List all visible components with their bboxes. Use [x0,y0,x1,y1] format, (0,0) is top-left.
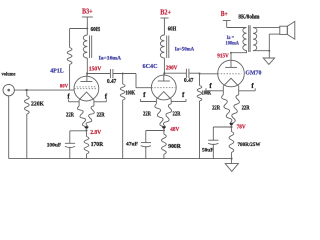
wire resistor to grid node [69,65,71,91]
svg-text:290V: 290V [166,66,178,72]
svg-text:915V: 915V [217,54,229,60]
svg-text:22R: 22R [173,112,182,118]
filament terminal f left (V2) [140,99,156,102]
svg-text:6C4C: 6C4C [143,63,158,70]
wire filament3 leg right [238,86,240,95]
ground (speaker) [263,58,274,64]
wire cathode3 to bypass [213,126,231,128]
power label B3+ [82,8,93,15]
tube V1 screen grid (dashed) [77,86,97,88]
ground rail [9,158,232,160]
wire grid2 entry [136,87,151,89]
B3+ terminal bar [82,16,93,18]
label 22R left (V3) [212,105,221,111]
tube V3 plate [225,66,237,68]
svg-text:0.47: 0.47 [107,79,116,85]
wire 47uF drop [145,131,147,143]
tube V1 filament [79,92,94,100]
wire input jack to ground [8,96,10,159]
label f left (V2) [143,91,146,99]
wire 50uF drop [212,127,214,140]
choke L1 core lines [90,36,92,59]
svg-text:50uF: 50uF [202,147,214,153]
resistor 170R [84,137,89,155]
capacitor 47uF bypass [141,143,151,147]
resistor 220K [24,96,29,114]
svg-text:150V: 150V [89,67,102,73]
label 50uF [202,147,214,153]
tube V2 plate [158,73,170,81]
svg-text:100K: 100K [202,91,212,97]
label 780R/25W [238,142,262,148]
wire filament leg right [93,100,95,106]
label 22R right (V2) [173,112,182,118]
wire 220K to ground rail [26,114,28,159]
label 8K/8ohm [238,14,259,20]
filament terminal f left (V1) [69,99,80,102]
B+ terminal bar [223,20,231,22]
wire choke to plate [86,58,88,76]
svg-text:GM70: GM70 [245,69,262,76]
ground (main) [225,164,238,172]
wire node to 170R [86,130,88,136]
wire node to 900R [163,130,165,134]
wire C1 to stage2 grid [113,73,136,75]
resistor 22R left (V3) [222,95,232,126]
wire input to grid [14,89,74,91]
resistor 900R [162,134,167,154]
label 900R [168,144,181,150]
wire B2+ down [163,18,165,35]
label 150V [89,67,102,73]
wire cathode node to bypass cap [70,130,87,132]
wire 220K top [26,90,28,96]
choke L1 60H winding [83,35,87,58]
label 22R left (V2) [143,112,152,118]
B2+ terminal bar [160,17,168,19]
wire secondary bottom [253,50,269,52]
svg-text:780R/25W: 780R/25W [238,142,262,148]
label f left (V1) [67,92,70,100]
label 100K (V2) [126,91,136,97]
wire plate3 lead [230,53,232,68]
tube V3 grid (dashed) [218,73,242,75]
node 915V plate junction [230,52,232,54]
label 78V [237,125,247,131]
wire filament3 leg left [222,86,224,95]
choke L2 60H winding [160,35,164,58]
label f left (V3) [209,82,212,90]
resistor 22R left (V1) [77,106,86,129]
label 4P1L [50,67,64,74]
label GM70 [245,69,262,76]
node 100K junction stage3 [199,73,201,75]
svg-text:22R: 22R [143,112,152,118]
transformer T1 primary [243,28,247,51]
svg-text:100K: 100K [126,91,136,97]
svg-text:4P1L: 4P1L [50,67,64,74]
label 47uF [126,142,139,148]
wire B+ to transformer [227,27,247,29]
power label B+ [221,11,228,18]
resistor 22R right (V1) [86,106,94,129]
tube V2 6C4C envelope [151,75,176,100]
label Ia=50mA [175,47,195,53]
node 48V cathode [163,129,165,131]
label 60H (L2) [168,26,177,32]
svg-text:0.47: 0.47 [184,78,194,84]
label Ia = 100mA [226,35,240,47]
tube V3 GM70 envelope [218,60,245,87]
wire filament leg left [78,100,80,106]
node 2.8V cathode [85,129,87,131]
filament terminal f right (V2) [171,99,186,102]
wire grid-feed drop [69,29,71,48]
filament terminal f right (V3) [239,88,256,91]
svg-text:2.8V: 2.8V [90,130,102,136]
label 100uF [47,143,62,149]
svg-text:Ia=50mA: Ia=50mA [175,47,195,53]
label 290V [166,66,178,72]
svg-text:B+: B+ [221,11,228,18]
svg-text:B3+: B3+ [82,8,93,15]
label 80V [60,84,68,90]
node rail junction [231,158,233,160]
svg-text:volume: volume [2,71,16,77]
capacitor 50uF bypass [208,140,218,144]
speaker [280,21,295,39]
resistor 780R/25W [229,132,234,153]
wire 100uF to ground rail [69,147,71,159]
tube V1 control grid (dashed) [74,88,96,90]
tube V1 plate [80,74,92,82]
resistor 100K grid leak (V3) [197,74,202,159]
node 100K junction [122,73,124,75]
wire 50uF to ground rail [212,144,214,159]
svg-text:8K/8ohm: 8K/8ohm [238,14,259,20]
wire secondary top to speaker [253,27,280,29]
node 78V cathode [230,126,232,128]
wire plate to coupling cap [87,73,110,75]
svg-text:22R: 22R [66,113,75,119]
label f right (V3) [251,82,254,90]
label f right (V1) [105,92,108,100]
node input 220K junction [25,89,27,91]
wire cathode2 to bypass [146,130,164,132]
resistor 22R right (V2) [163,104,171,130]
svg-text:100mA: 100mA [226,40,240,46]
label 170R [91,142,104,148]
wire choke L2 to plate [163,58,165,75]
wire step down to grid2 [135,74,137,88]
transformer T1 secondary [253,28,257,51]
svg-text:220K: 220K [31,102,44,108]
label 220K [31,102,44,108]
resistor 22R right (V3) [231,95,239,126]
svg-text:100uF: 100uF [47,143,62,149]
svg-text:22R: 22R [97,113,106,119]
label 60H [91,27,101,33]
label volume [2,71,16,77]
capacitor C1 0.47 coupling [110,69,113,78]
filament terminal f left (V3) [206,88,223,91]
resistor 22R left (V2) [155,104,164,130]
tube V2 grid (dashed) [151,87,175,89]
label 0.47 (C1) [107,79,116,85]
wire B3+ down [86,17,88,35]
wire filament2 leg left [155,99,157,104]
wire bypass cap drop [69,131,71,144]
resistor grid-feed (stage 1) [67,48,72,65]
input jack [3,84,14,95]
capacitor C2 0.47 coupling [186,69,189,78]
wire C2 to stage3 grid [189,72,218,75]
svg-text:Ia=16mA: Ia=16mA [99,56,122,62]
svg-text:60H: 60H [168,26,177,32]
wire plate2 to coupling cap [164,72,186,74]
node 150V plate junction [86,73,88,75]
wire B+ down [226,21,228,28]
node secondary return [268,50,270,52]
tube V3 filament [223,78,238,86]
svg-text:170R: 170R [91,142,104,148]
wire 900R to ground rail [163,154,165,158]
wire node to 780R [230,127,232,132]
node junction B3+ branch [86,28,88,30]
svg-text:47uF: 47uF [126,142,139,148]
svg-text:900R: 900R [168,144,181,150]
wire 170R to ground rail [86,154,88,159]
label 2.8V [90,130,102,136]
transformer T1 core [249,25,250,52]
choke L2 core lines [167,36,169,59]
power label B2+ [160,9,171,16]
label 915V [217,54,229,60]
wire speaker return [269,34,280,58]
label Ia=16mA [99,56,122,62]
svg-text:22R: 22R [212,105,221,111]
label 100K (V3) [202,91,212,97]
tube V1 4P1L envelope [74,76,99,101]
wire 780R to ground [230,153,232,164]
wire filament2 leg right [170,99,172,104]
label 48V [170,127,180,133]
tube V2 filament [156,92,171,100]
wire to grid-feed resistor [70,28,88,30]
svg-text:48V: 48V [170,127,180,133]
wire 47uF to ground rail [145,146,147,159]
label 22R left (V1) [66,113,75,119]
svg-text:B2+: B2+ [160,9,171,16]
svg-text:78V: 78V [237,125,247,131]
label 0.47 (C2) [184,78,194,84]
wire primary to plate [231,51,247,53]
node 290V plate junction [163,72,165,74]
resistor 100K grid leak (V2) [120,74,125,159]
svg-text:80V: 80V [60,84,68,90]
capacitor 100uF bypass [65,143,75,147]
svg-text:22R: 22R [242,105,251,111]
label 6C4C [143,63,158,70]
label f right (V2) [182,91,185,99]
svg-text:60H: 60H [91,27,101,33]
label 22R right (V3) [242,105,251,111]
label 22R right (V1) [97,113,106,119]
filament terminal f right (V1) [94,99,106,102]
